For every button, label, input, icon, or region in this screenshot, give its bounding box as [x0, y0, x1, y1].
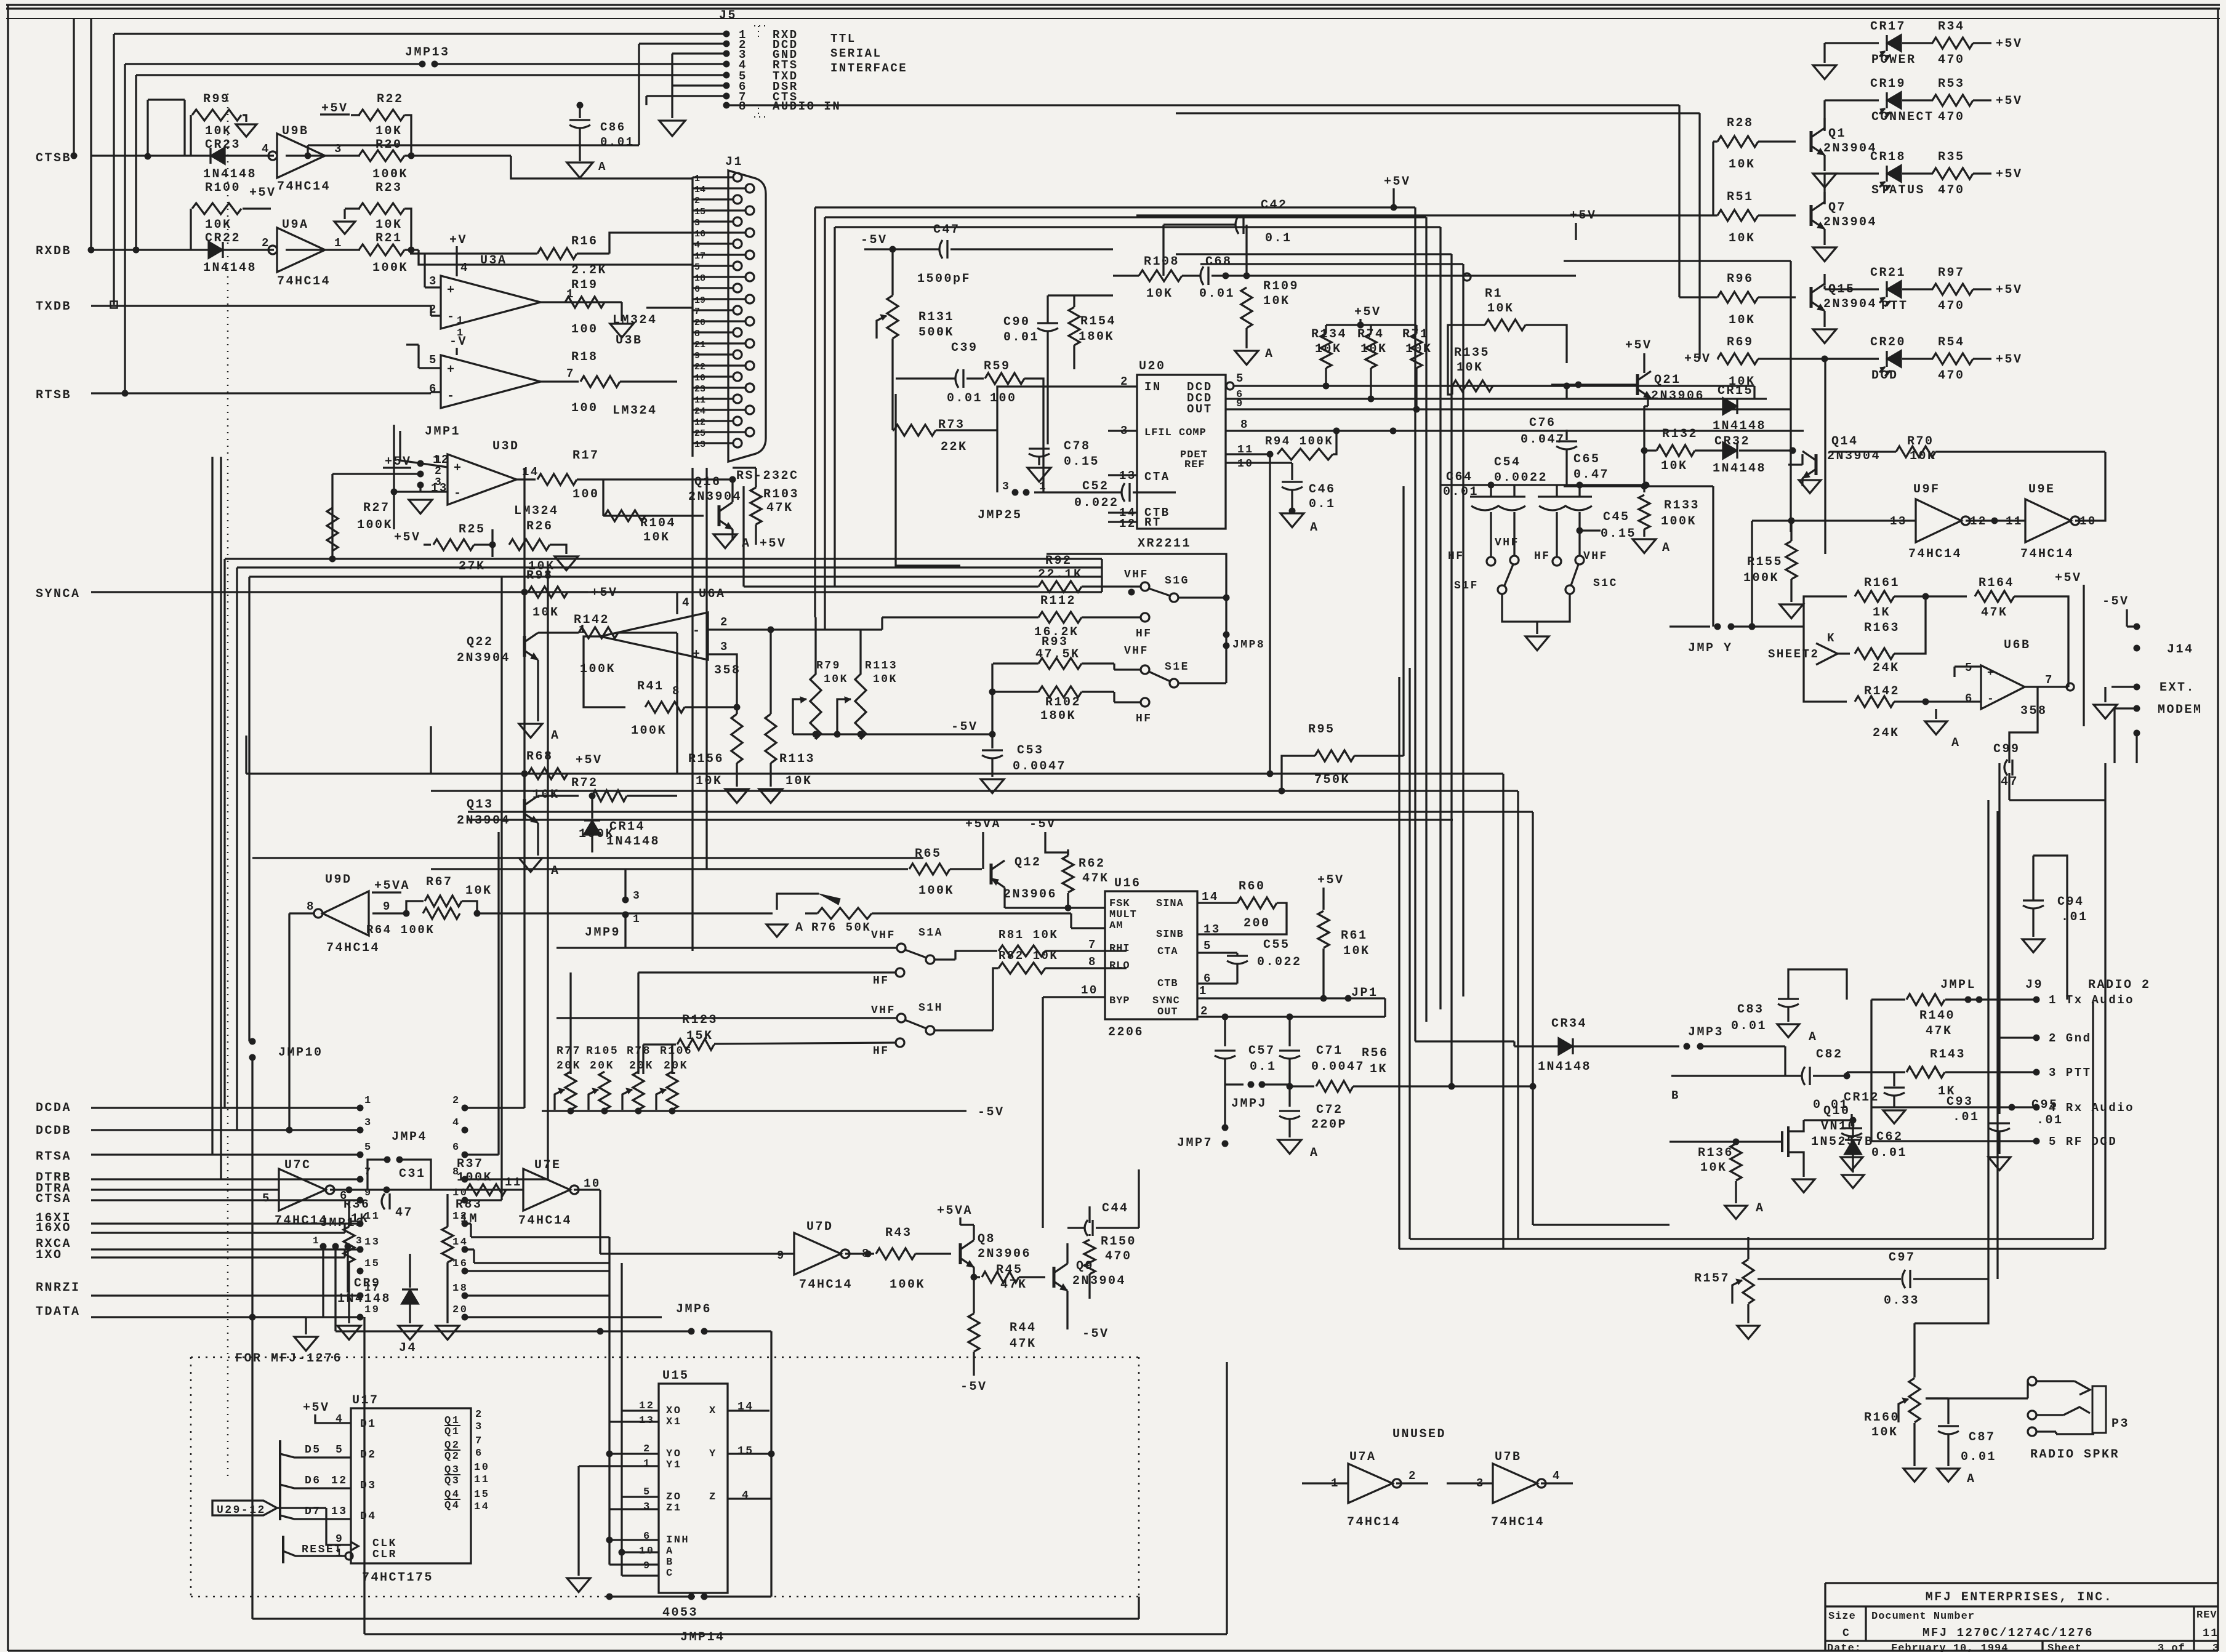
svg-text:0.01: 0.01 — [1199, 287, 1235, 301]
svg-text:74HC14: 74HC14 — [1347, 1515, 1400, 1530]
svg-text:9: 9 — [694, 351, 700, 361]
svg-text:R135: R135 — [1454, 346, 1490, 360]
svg-text:A: A — [1662, 541, 1671, 555]
svg-text:VHF: VHF — [871, 1004, 896, 1017]
svg-text:8: 8 — [739, 100, 747, 113]
svg-text:1: 1 — [457, 327, 465, 339]
svg-text:0.01: 0.01 — [1871, 1146, 1907, 1160]
svg-text:A: A — [1310, 521, 1319, 535]
svg-text:R53: R53 — [1938, 77, 1965, 91]
svg-text:4: 4 — [694, 240, 700, 251]
svg-text:INTERFACE: INTERFACE — [830, 62, 907, 75]
svg-text:J4: J4 — [399, 1341, 417, 1355]
svg-text:4: 4 — [1553, 1469, 1561, 1483]
svg-text:10K: 10K — [643, 531, 670, 545]
svg-text:4: 4 — [742, 1490, 750, 1502]
svg-text:R16: R16 — [571, 235, 598, 249]
svg-text:JMP14: JMP14 — [680, 1630, 725, 1645]
svg-text:74HC14: 74HC14 — [799, 1278, 853, 1292]
svg-text:4: 4 — [460, 261, 469, 275]
svg-text:4 Rx Audio: 4 Rx Audio — [2049, 1101, 2134, 1115]
svg-text:HF: HF — [873, 1045, 890, 1057]
svg-text:-5V: -5V — [960, 1380, 987, 1394]
svg-text:0.01: 0.01 — [1961, 1450, 1996, 1464]
svg-text:180K: 180K — [1079, 330, 1114, 344]
svg-text:R1: R1 — [1485, 287, 1503, 301]
svg-text:3: 3 — [2212, 1643, 2219, 1652]
svg-text:MODEM: MODEM — [2158, 703, 2203, 717]
svg-text:R97: R97 — [1938, 266, 1965, 280]
svg-text:R100: R100 — [205, 181, 241, 195]
svg-text:CR34: CR34 — [1551, 1017, 1587, 1031]
svg-text:RESET: RESET — [302, 1544, 343, 1556]
svg-text:1: 1 — [364, 1095, 372, 1107]
svg-text:14: 14 — [452, 1237, 468, 1248]
svg-text:JMP Y: JMP Y — [1688, 641, 1733, 656]
svg-text:R18: R18 — [571, 350, 598, 364]
svg-text:A: A — [1809, 1030, 1818, 1045]
svg-text:220P: 220P — [1311, 1118, 1347, 1132]
svg-text:SHEET2: SHEET2 — [1768, 648, 1819, 661]
svg-text:5: 5 — [1236, 372, 1245, 385]
svg-text:K: K — [1827, 632, 1836, 645]
svg-text:1XO: 1XO — [36, 1248, 63, 1262]
svg-text:LFIL COMP: LFIL COMP — [1144, 427, 1207, 439]
svg-text:R28: R28 — [1727, 116, 1754, 130]
svg-text:2N3904: 2N3904 — [1823, 215, 1877, 230]
svg-text:MULT: MULT — [1109, 909, 1137, 921]
svg-text:R92: R92 — [1045, 554, 1072, 568]
svg-text:0.0047: 0.0047 — [1311, 1060, 1365, 1074]
svg-text:U3D: U3D — [492, 439, 520, 454]
svg-text:+5V: +5V — [1996, 283, 2023, 297]
svg-text:C44: C44 — [1102, 1201, 1129, 1216]
svg-text:JMP10: JMP10 — [278, 1046, 323, 1060]
svg-text:9: 9 — [777, 1249, 786, 1262]
svg-text:5: 5 — [429, 353, 438, 367]
svg-text:C86: C86 — [600, 121, 626, 134]
svg-text:C99: C99 — [1993, 742, 2020, 756]
svg-text:47K: 47K — [766, 501, 794, 515]
svg-text:+5VA: +5VA — [965, 817, 1001, 832]
svg-text:1: 1 — [457, 315, 465, 327]
svg-text:9: 9 — [364, 1187, 372, 1199]
svg-text:LM324: LM324 — [613, 313, 657, 327]
svg-text:R35: R35 — [1938, 150, 1965, 164]
svg-text:100K: 100K — [890, 1278, 925, 1292]
svg-text:0.1: 0.1 — [1309, 497, 1336, 511]
svg-text:15: 15 — [694, 207, 705, 217]
svg-text:1N4148: 1N4148 — [203, 167, 257, 182]
svg-text:5: 5 — [336, 1444, 344, 1456]
svg-text:R104: R104 — [640, 516, 676, 531]
svg-text:+5V: +5V — [1996, 37, 2023, 51]
svg-text:C65: C65 — [1573, 452, 1601, 467]
svg-text:C47: C47 — [933, 223, 960, 237]
svg-text:C42: C42 — [1261, 198, 1288, 212]
svg-text:C31: C31 — [399, 1167, 426, 1181]
svg-text:100: 100 — [990, 391, 1017, 406]
svg-text:A: A — [1265, 347, 1274, 361]
svg-text:0.1: 0.1 — [1265, 231, 1292, 246]
svg-text:22.1K: 22.1K — [1038, 567, 1083, 582]
svg-text:C53: C53 — [1017, 744, 1044, 758]
svg-text:Q3: Q3 — [444, 1475, 460, 1487]
svg-text:R134: R134 — [1311, 327, 1347, 342]
svg-text:U9B: U9B — [282, 124, 309, 138]
svg-text:1K: 1K — [1873, 606, 1890, 620]
svg-text:+5VA: +5VA — [374, 879, 410, 893]
svg-text:C: C — [1842, 1627, 1850, 1640]
svg-text:R41: R41 — [637, 680, 664, 694]
svg-text:470: 470 — [1938, 110, 1965, 124]
svg-text:R54: R54 — [1938, 335, 1965, 350]
svg-text:FSK: FSK — [1109, 898, 1130, 910]
svg-text:A: A — [1951, 736, 1961, 750]
svg-text:1: 1 — [643, 1458, 651, 1470]
svg-text:0.15: 0.15 — [1064, 455, 1099, 469]
svg-text:+: + — [693, 648, 702, 662]
svg-text:Z1: Z1 — [666, 1502, 681, 1514]
svg-text:+: + — [447, 363, 456, 377]
svg-text:15: 15 — [737, 1445, 754, 1458]
svg-text:U3B: U3B — [616, 334, 643, 348]
svg-text:OUT: OUT — [1187, 403, 1213, 416]
svg-text:0.047: 0.047 — [1521, 433, 1565, 447]
svg-text:R132: R132 — [1662, 427, 1698, 441]
svg-text:C39: C39 — [951, 341, 978, 355]
svg-text:470: 470 — [1938, 369, 1965, 383]
svg-text:0.0047: 0.0047 — [1013, 760, 1066, 774]
svg-text:2: 2 — [694, 196, 700, 206]
svg-text:C57: C57 — [1248, 1044, 1276, 1058]
svg-text:R109: R109 — [1263, 279, 1299, 294]
svg-text:-5V: -5V — [978, 1105, 1005, 1120]
svg-text:4053: 4053 — [662, 1606, 698, 1620]
svg-text:100K: 100K — [1661, 515, 1697, 529]
svg-text:4: 4 — [262, 142, 270, 156]
svg-text:VHF: VHF — [871, 929, 896, 942]
svg-text:0.01: 0.01 — [947, 391, 982, 406]
svg-text:16: 16 — [694, 229, 705, 239]
svg-text:CTB: CTB — [1157, 978, 1178, 990]
svg-text:1500pF: 1500pF — [917, 272, 971, 286]
svg-text:C55: C55 — [1263, 938, 1290, 952]
svg-text:C: C — [666, 1568, 674, 1579]
svg-text:Q7: Q7 — [1828, 201, 1846, 215]
svg-text:1N5257B: 1N5257B — [1811, 1135, 1874, 1149]
svg-text:3: 3 — [1002, 481, 1010, 493]
svg-text:0.47: 0.47 — [1573, 468, 1609, 482]
svg-text:Q21: Q21 — [1654, 373, 1681, 387]
svg-text:R106: R106 — [660, 1045, 693, 1057]
svg-text:+5V: +5V — [1384, 175, 1411, 189]
svg-text:U29-12: U29-12 — [217, 1504, 266, 1517]
svg-text:Q12: Q12 — [1015, 856, 1042, 870]
svg-text:1 Tx Audio: 1 Tx Audio — [2049, 993, 2134, 1007]
svg-text:8: 8 — [694, 329, 700, 339]
svg-text:17: 17 — [694, 251, 705, 262]
svg-text:U17: U17 — [352, 1393, 379, 1408]
svg-text:RS-232C: RS-232C — [736, 469, 799, 483]
svg-text:February 10, 1994: February 10, 1994 — [1891, 1643, 2008, 1652]
svg-text:13: 13 — [331, 1506, 348, 1518]
svg-text:B: B — [666, 1557, 674, 1568]
svg-text:2N3904: 2N3904 — [1823, 297, 1877, 311]
svg-text:CTSA: CTSA — [36, 1192, 71, 1206]
svg-text:C64: C64 — [1446, 470, 1473, 484]
svg-text:2: 2 — [262, 236, 270, 250]
svg-text:10K: 10K — [1343, 944, 1370, 958]
svg-text:VHF: VHF — [1583, 550, 1608, 563]
svg-text:100K: 100K — [372, 261, 408, 275]
svg-text:R23: R23 — [376, 181, 403, 195]
svg-text:10K: 10K — [376, 124, 403, 138]
svg-text:23: 23 — [694, 384, 705, 395]
svg-text:6: 6 — [475, 1448, 483, 1459]
svg-text:3: 3 — [475, 1421, 483, 1433]
svg-text:22K: 22K — [941, 440, 968, 454]
svg-text:DCDA: DCDA — [36, 1101, 71, 1115]
svg-text:C46: C46 — [1309, 483, 1336, 497]
svg-text:POWER: POWER — [1871, 53, 1916, 67]
svg-text:C71: C71 — [1316, 1044, 1343, 1058]
svg-text:Sheet: Sheet — [2047, 1643, 2082, 1652]
svg-text:TXDB: TXDB — [36, 300, 71, 314]
svg-text:JMP1: JMP1 — [425, 425, 460, 439]
svg-text:C72: C72 — [1316, 1103, 1343, 1117]
svg-text:R123: R123 — [682, 1013, 718, 1027]
svg-text:R68: R68 — [526, 750, 553, 764]
svg-text:+5V: +5V — [1684, 352, 1711, 366]
svg-text:8: 8 — [1240, 418, 1249, 431]
svg-text:5: 5 — [364, 1142, 372, 1153]
svg-text:D2: D2 — [360, 1449, 377, 1461]
svg-text:A: A — [551, 729, 560, 743]
svg-text:A: A — [795, 921, 805, 935]
svg-text:S1C: S1C — [1593, 577, 1618, 590]
svg-text:U3A: U3A — [480, 254, 507, 268]
svg-text:R59: R59 — [984, 359, 1011, 374]
svg-text:J1: J1 — [725, 155, 743, 169]
svg-text:U6B: U6B — [2004, 638, 2031, 652]
svg-text:S1A: S1A — [918, 927, 943, 939]
svg-text:180K: 180K — [1040, 709, 1076, 723]
svg-text:CR32: CR32 — [1714, 435, 1750, 449]
svg-text:12: 12 — [331, 1475, 348, 1487]
svg-text:A: A — [666, 1546, 674, 1557]
svg-text:CR22: CR22 — [205, 231, 241, 246]
svg-text:10K: 10K — [1263, 294, 1290, 308]
svg-text:R96: R96 — [1727, 272, 1754, 286]
svg-text:.01: .01 — [2061, 910, 2088, 924]
svg-text:R150: R150 — [1101, 1235, 1136, 1249]
svg-text:VHF: VHF — [1124, 569, 1149, 581]
svg-text:Q1: Q1 — [444, 1426, 460, 1438]
svg-text:20K: 20K — [590, 1060, 614, 1072]
svg-text:C90: C90 — [1003, 315, 1031, 329]
svg-text:R51: R51 — [1727, 190, 1754, 204]
svg-text:A +5V: A +5V — [742, 537, 787, 551]
svg-text:YO: YO — [666, 1448, 681, 1460]
svg-text:RADIO SPKR: RADIO SPKR — [2030, 1448, 2120, 1462]
svg-text:100K: 100K — [372, 167, 408, 182]
svg-text:1: 1 — [313, 1235, 320, 1246]
svg-text:19: 19 — [364, 1304, 380, 1316]
svg-text:R56: R56 — [1362, 1046, 1389, 1061]
svg-text:1N4148: 1N4148 — [1713, 462, 1766, 476]
svg-text:JMP9: JMP9 — [585, 926, 621, 940]
svg-text:-: - — [454, 487, 463, 501]
svg-text:-: - — [693, 624, 702, 638]
svg-text:XR2211: XR2211 — [1138, 537, 1191, 551]
svg-text:R20: R20 — [376, 138, 403, 152]
svg-text:C76: C76 — [1529, 416, 1556, 430]
svg-text:14: 14 — [694, 185, 705, 195]
svg-text:C45: C45 — [1603, 510, 1630, 524]
svg-text:R26: R26 — [526, 519, 553, 534]
svg-text:-: - — [447, 310, 456, 324]
svg-text:HF: HF — [1136, 628, 1152, 640]
svg-text:10K: 10K — [205, 218, 232, 232]
svg-text:11: 11 — [505, 1176, 522, 1189]
svg-text:15: 15 — [364, 1258, 380, 1270]
svg-text:R154: R154 — [1080, 315, 1116, 329]
svg-text:10K: 10K — [1700, 1161, 1727, 1175]
svg-text:11: 11 — [364, 1211, 380, 1222]
svg-text:17: 17 — [364, 1283, 380, 1294]
svg-text:R103: R103 — [763, 487, 799, 502]
svg-text:REF: REF — [1184, 459, 1205, 471]
svg-text:TTL: TTL — [830, 32, 856, 46]
svg-text:500K: 500K — [918, 326, 954, 340]
svg-text:R164: R164 — [1979, 576, 2014, 590]
svg-text:Size: Size — [1828, 1611, 1856, 1622]
svg-text:JP1: JP1 — [1351, 986, 1378, 1000]
svg-text:2: 2 — [452, 1095, 460, 1107]
svg-text:Z: Z — [709, 1491, 717, 1503]
svg-text:74HC14: 74HC14 — [1908, 547, 1962, 561]
svg-text:LM324: LM324 — [514, 504, 559, 518]
svg-text:R94 100K: R94 100K — [1265, 435, 1333, 448]
svg-text:7: 7 — [566, 367, 575, 380]
svg-text:20K: 20K — [556, 1060, 581, 1072]
svg-text:RHI: RHI — [1109, 943, 1130, 955]
svg-text:R163: R163 — [1864, 621, 1900, 635]
svg-text:5: 5 — [1965, 661, 1974, 675]
svg-text:CTA: CTA — [1144, 470, 1170, 484]
svg-text:9: 9 — [1236, 398, 1244, 410]
svg-text:16: 16 — [452, 1258, 468, 1270]
svg-text:0.01: 0.01 — [1003, 331, 1039, 345]
svg-text:11: 11 — [2203, 1627, 2219, 1640]
svg-text:1K: 1K — [1370, 1062, 1388, 1077]
svg-text:Y1: Y1 — [666, 1459, 681, 1471]
svg-text:10: 10 — [1081, 984, 1098, 997]
svg-text:Q8: Q8 — [978, 1232, 995, 1246]
svg-text:D3: D3 — [360, 1480, 377, 1492]
svg-text:C87: C87 — [1969, 1430, 1996, 1445]
svg-text:20K: 20K — [664, 1060, 688, 1072]
svg-text:R98: R98 — [526, 569, 553, 583]
svg-text:47: 47 — [395, 1206, 413, 1220]
svg-text:CR20: CR20 — [1870, 335, 1906, 350]
svg-text:3: 3 — [720, 640, 729, 654]
svg-text:2N3904: 2N3904 — [1823, 142, 1877, 156]
svg-text:358: 358 — [2020, 704, 2047, 718]
svg-text:14: 14 — [474, 1501, 489, 1513]
svg-text:3: 3 — [694, 218, 700, 228]
svg-text:C54: C54 — [1494, 455, 1521, 470]
svg-text:CR14: CR14 — [609, 820, 645, 834]
svg-text:10K: 10K — [1729, 313, 1756, 327]
svg-text:10K: 10K — [1487, 302, 1514, 316]
svg-text:19: 19 — [694, 295, 705, 306]
svg-text:R19: R19 — [571, 278, 598, 292]
svg-text:IN: IN — [1144, 380, 1162, 394]
svg-text:100K: 100K — [357, 518, 393, 532]
svg-text:10: 10 — [452, 1187, 468, 1199]
svg-text:13: 13 — [431, 481, 448, 495]
svg-text:3 of: 3 of — [2158, 1643, 2185, 1652]
svg-text:U7A: U7A — [1349, 1450, 1376, 1464]
svg-text:-: - — [447, 390, 456, 404]
svg-text:MFJ 1270C/1274C/1276: MFJ 1270C/1274C/1276 — [1923, 1626, 2094, 1640]
svg-text:10K: 10K — [1871, 1425, 1899, 1440]
svg-text:1N4148: 1N4148 — [606, 835, 660, 849]
svg-text:R105: R105 — [586, 1045, 619, 1057]
svg-text:MFJ ENTERPRISES, INC.: MFJ ENTERPRISES, INC. — [1926, 1590, 2113, 1605]
svg-text:R60: R60 — [1239, 880, 1266, 894]
svg-text:14: 14 — [1202, 890, 1219, 904]
svg-text:D1: D1 — [360, 1418, 377, 1430]
svg-text:C93: C93 — [1947, 1095, 1974, 1109]
svg-text:10: 10 — [474, 1462, 489, 1474]
svg-text:+5V: +5V — [1317, 873, 1344, 888]
svg-text:R72: R72 — [571, 776, 598, 790]
svg-text:7: 7 — [475, 1435, 483, 1447]
svg-text:Q4: Q4 — [444, 1500, 460, 1512]
svg-text:CR17: CR17 — [1870, 20, 1906, 34]
svg-text:RTSB: RTSB — [36, 388, 71, 403]
svg-text:47K: 47K — [1082, 872, 1109, 886]
svg-text:100K: 100K — [580, 662, 616, 676]
svg-text:+: + — [447, 284, 456, 298]
svg-text:R160: R160 — [1864, 1411, 1900, 1425]
svg-text:Q14: Q14 — [1831, 435, 1858, 449]
svg-text:C94: C94 — [2057, 895, 2084, 909]
svg-text:+5V: +5V — [1996, 94, 2023, 108]
svg-text:100K: 100K — [1743, 571, 1779, 585]
svg-text:J14: J14 — [2167, 643, 2194, 657]
svg-text:10K: 10K — [1729, 231, 1756, 246]
svg-text:.01: .01 — [1953, 1110, 1980, 1125]
svg-text:A: A — [1967, 1472, 1976, 1486]
svg-text:10K: 10K — [205, 124, 232, 138]
svg-text:Q13: Q13 — [467, 798, 494, 812]
svg-text:R99: R99 — [203, 92, 230, 106]
svg-text:AM: AM — [1109, 920, 1123, 932]
svg-text:B: B — [1671, 1089, 1680, 1102]
svg-text:9: 9 — [383, 900, 392, 913]
svg-text:74HC14: 74HC14 — [326, 941, 380, 955]
svg-text:U16: U16 — [1114, 876, 1141, 891]
svg-text:HF: HF — [1448, 550, 1465, 563]
svg-text:CONNECT: CONNECT — [1871, 110, 1934, 124]
svg-text:-5V: -5V — [2102, 595, 2129, 609]
svg-text:470: 470 — [1938, 53, 1965, 67]
svg-text:4: 4 — [682, 596, 691, 609]
